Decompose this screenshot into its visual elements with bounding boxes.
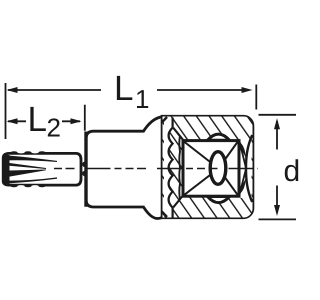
cone line bottom — [173, 194, 184, 207]
d line + arrows — [276, 121, 278, 150]
bit body — [3, 153, 81, 185]
bore ellipse — [210, 152, 226, 185]
scallop wavy line — [169, 128, 173, 208]
bit flute upper-mid streak — [5, 162, 46, 169]
bit flute left mass — [3, 155, 9, 184]
shank with flare — [86, 117, 163, 219]
shank left face — [84, 132, 87, 207]
bit lobe notches top — [17, 151, 25, 153]
head hatching — [162, 116, 254, 218]
right bore arc — [246, 135, 252, 202]
bottom bump arc — [208, 197, 230, 203]
head chamfer top-left — [162, 117, 167, 123]
drive square — [183, 141, 239, 197]
bit flute top streak — [5, 155, 57, 162]
L1 line right segment + arrow — [157, 89, 243, 91]
inner rim line — [178, 136, 181, 200]
dimension d extension lines — [259, 114, 297, 116]
spline end bump upper — [82, 162, 85, 167]
centerline — [54, 168, 258, 170]
label d — [285, 159, 298, 181]
square diagonals — [185, 142, 238, 195]
L1 line left segment + arrow — [8, 89, 101, 91]
scallop stub top — [172, 118, 174, 129]
cone line top — [173, 128, 184, 142]
dimension L2 line + arrows — [8, 120, 26, 122]
right white band — [241, 139, 252, 198]
top bump arc — [208, 134, 230, 140]
white strip left of scallops — [164, 118, 173, 216]
bit lobe bumps bottom — [10, 185, 17, 188]
L1 right tick — [255, 85, 257, 110]
bit flute bottom streak — [5, 177, 57, 183]
spline end bump lower — [82, 171, 85, 176]
bit lobe bumps top — [10, 151, 17, 154]
label L2 — [30, 107, 45, 131]
dimension L1: left tick — [5, 83, 7, 139]
bit flute lower-mid streak — [5, 170, 46, 178]
L2 right tick — [84, 105, 86, 131]
right transition lines — [240, 142, 247, 169]
bit lobe notches bottom — [17, 185, 25, 187]
socket head outline — [163, 117, 253, 218]
head chamfer bottom-left — [162, 212, 167, 218]
label L1 — [117, 76, 132, 100]
scallop stub bottom — [172, 207, 174, 218]
right dark wedge bottom — [240, 179, 246, 195]
right dark wedge top — [240, 142, 246, 158]
